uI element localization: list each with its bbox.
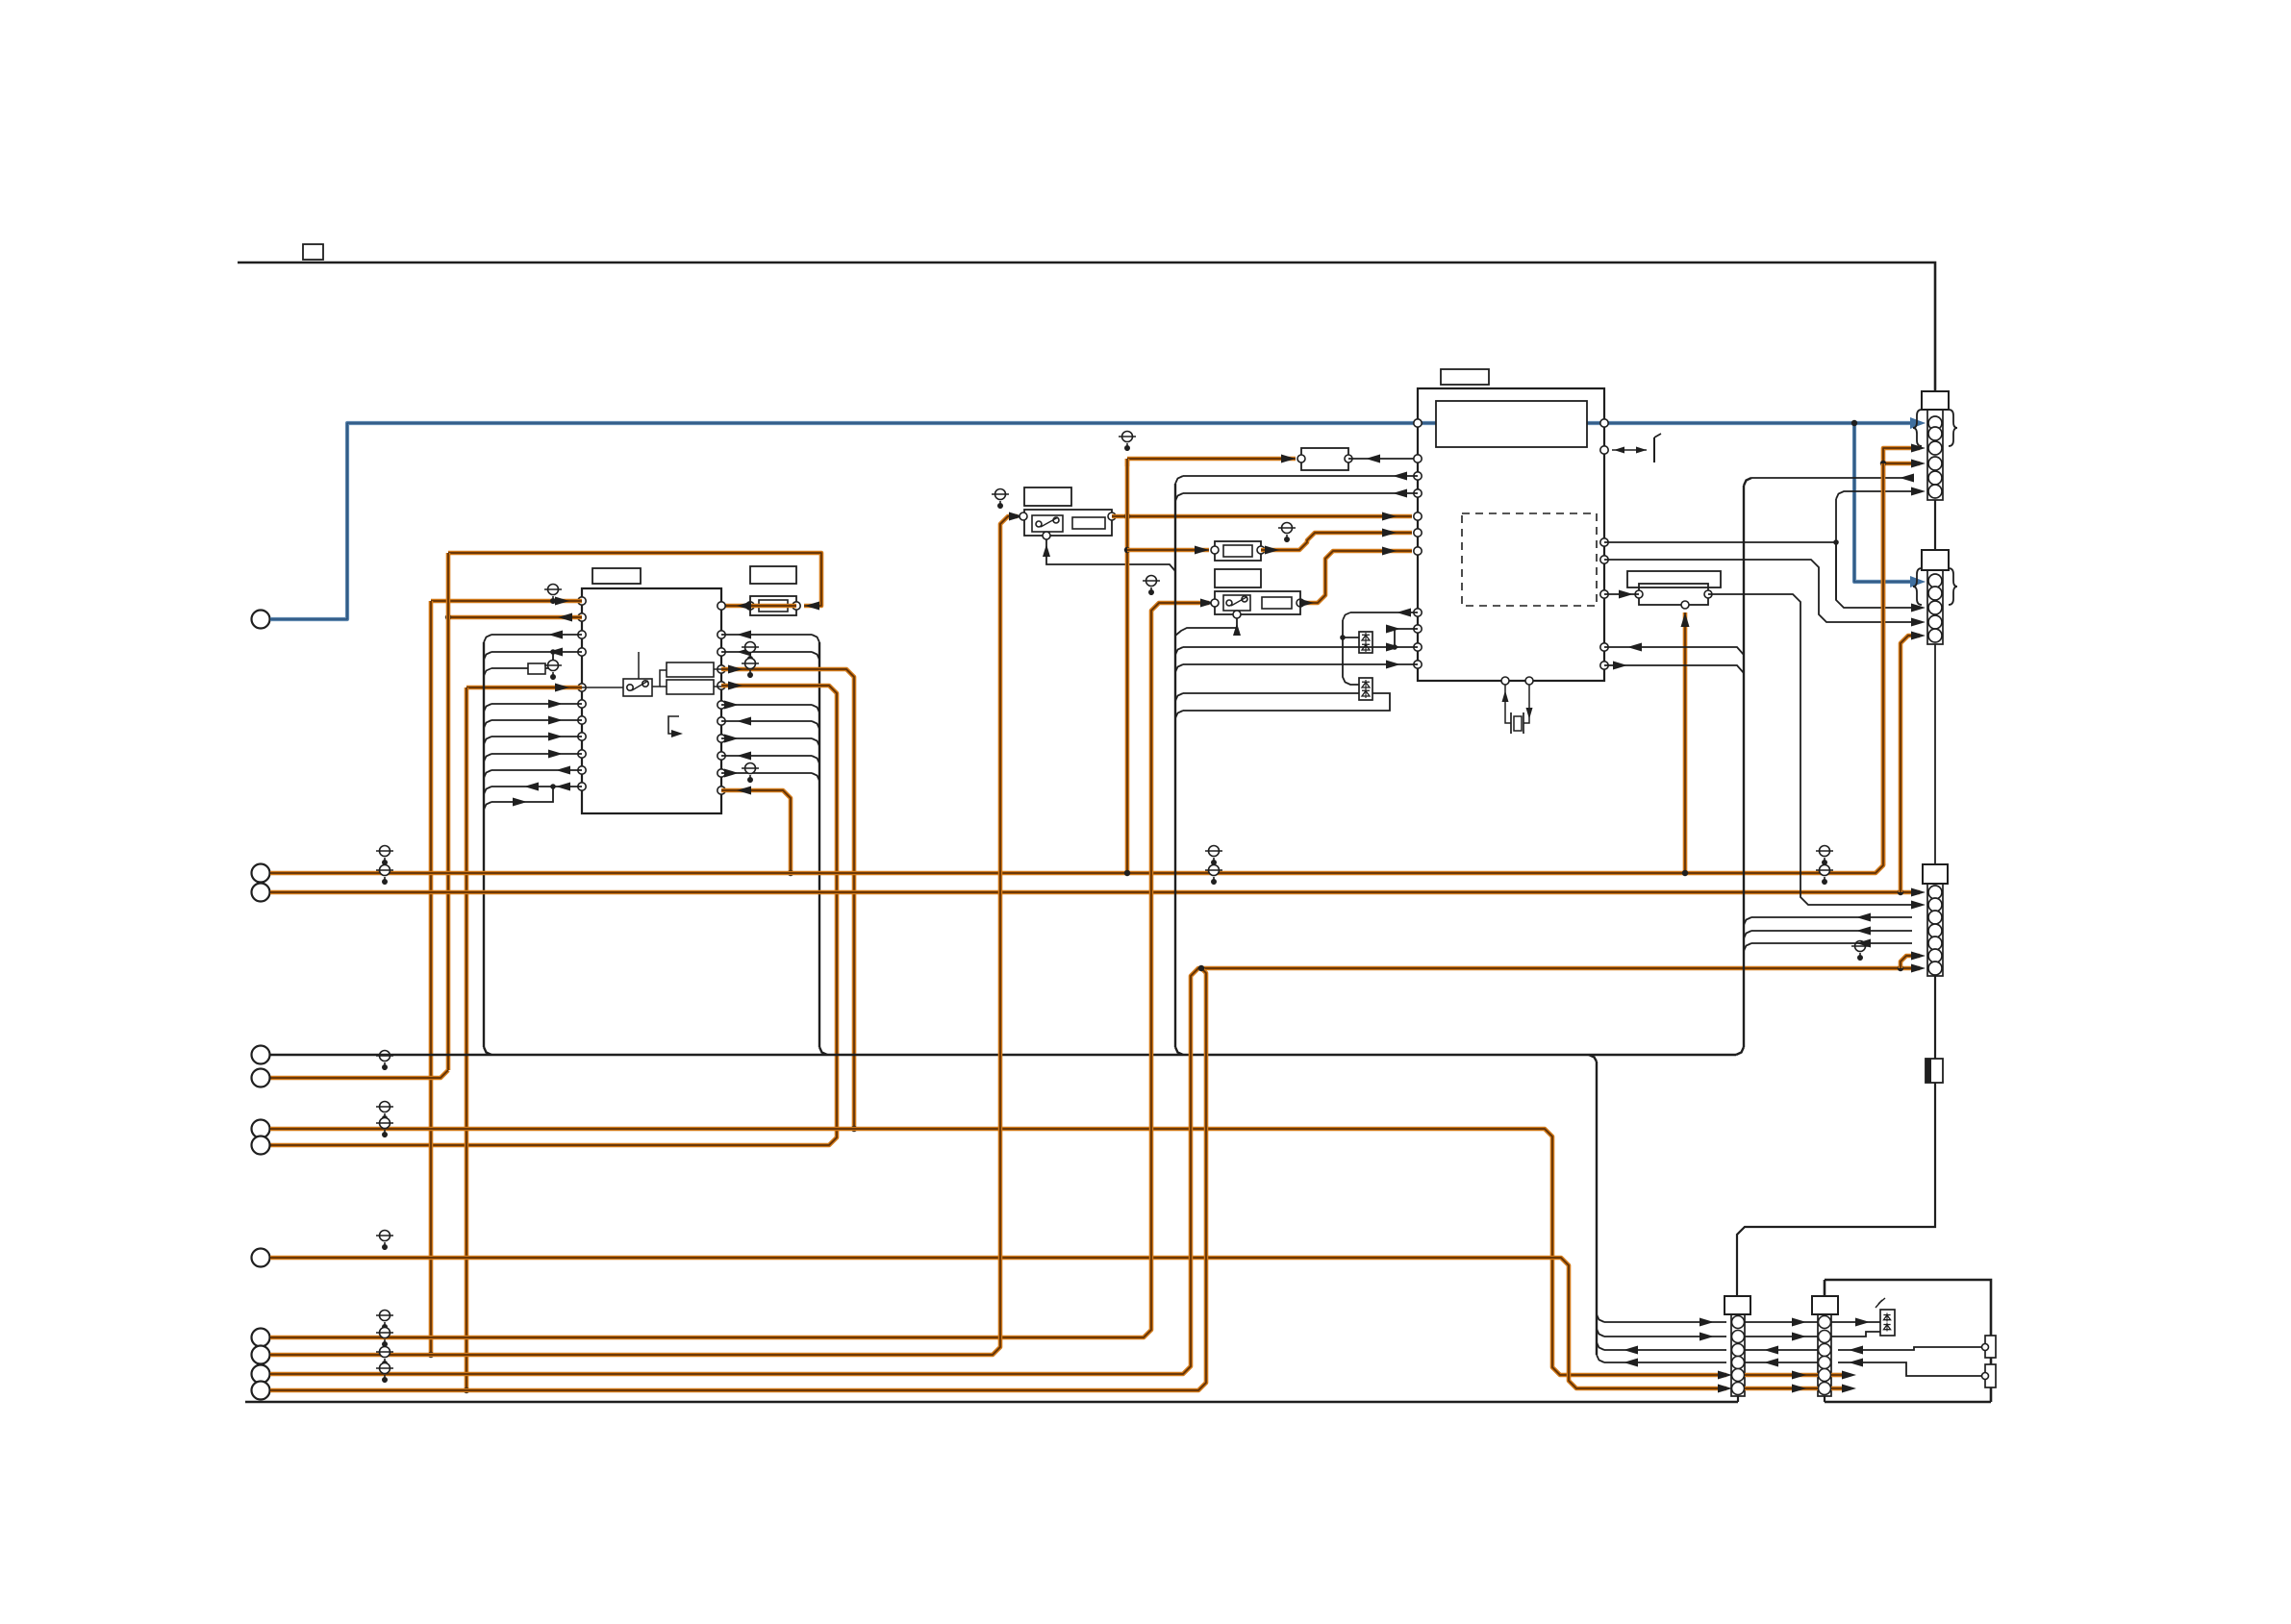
diode pack D2 bbox=[1359, 678, 1372, 700]
riser: orange x448 (terminal T5 to ECU1 pin 625) bbox=[429, 601, 434, 1355]
wire: bus to ECU2 pin 691 bbox=[1183, 663, 1418, 665]
wire: orange supply line y928 to connector J3 pin1 bbox=[270, 890, 1920, 895]
connector J2 pin stack bbox=[1927, 570, 1943, 644]
wire: C3 output jog up to ECU2 pin 554 bbox=[1261, 533, 1412, 550]
relay K2 outline bbox=[1215, 591, 1300, 614]
terminal T1 y1174 bbox=[252, 1120, 270, 1138]
connector J2 housing box bbox=[1922, 550, 1949, 570]
switch S3 inside K2 bbox=[1223, 595, 1250, 611]
wire: J1 pin6 gray feed bbox=[1835, 542, 1837, 600]
terminal: orange line y928 bbox=[252, 884, 270, 902]
wire: ECU2 pin 582 to J2 pin4 bbox=[1604, 560, 1920, 622]
diode pack D3 bbox=[1880, 1310, 1895, 1336]
wire: T7 line y1440 up riser x1246 joining y1007 line bbox=[270, 968, 1206, 1390]
wire: orange riser x1172 branch to C3 bbox=[1127, 548, 1209, 553]
symbol: bidirectional link at ECU2 pin 468 bbox=[1612, 449, 1647, 451]
splice marker on pin-625 wire bbox=[552, 596, 554, 604]
bus: mid harness vertical x1222 bbox=[1174, 484, 1176, 1047]
wire: T6 line y1421 up riser x1238 to conn J3 line bbox=[270, 968, 1920, 1374]
wire: K2 output orange riser to ECU2 pin 573 bbox=[1300, 551, 1412, 603]
backbone: J2 to J3 bbox=[1934, 644, 1936, 864]
wire: orange ECU1 pin 713 over to riser x870 bbox=[270, 686, 837, 1145]
backbone: J1 to J2 bbox=[1934, 500, 1936, 550]
dashed box inside U2 bbox=[1462, 513, 1597, 606]
label box U1 right bbox=[750, 566, 796, 584]
relay K1 outline bbox=[1024, 510, 1112, 536]
resistor R2 inside K1 bbox=[1072, 517, 1105, 529]
terminal T3 y1308 bbox=[252, 1249, 270, 1267]
terminal: black harness line y1097 bbox=[252, 1046, 270, 1064]
wire: orange loop over ECU1 from vertical riser to resistor R1 bbox=[448, 553, 821, 606]
wire: blue through ECU2 to connector J1 pin 1 bbox=[1418, 421, 1604, 425]
wire: J5 row1 to diode pack D3 bbox=[1831, 1321, 1880, 1323]
terminal: orange line y908 bbox=[252, 864, 270, 883]
junction: blue branch bbox=[1851, 420, 1857, 426]
wire: blue branch down to connector J2 pin 1 bbox=[1854, 423, 1920, 582]
wire: T2 line y1191 (joins riser x870) bbox=[384, 1130, 386, 1137]
connector J3 pin stack bbox=[1927, 884, 1943, 976]
resistor R3 inside K2 bbox=[1262, 597, 1292, 609]
wires: ECU2 pins 673/692 merge into bundle x1813 bbox=[1604, 647, 1744, 655]
terminal T2 y1191 bbox=[252, 1137, 270, 1155]
connector J3 housing box bbox=[1923, 864, 1948, 884]
wire: orange ECU1 pin 642 to riser x466 bbox=[448, 615, 582, 620]
connector J5 housing box bbox=[1812, 1296, 1838, 1314]
label box U1 left bbox=[592, 568, 641, 584]
inner box U2 top bbox=[1436, 401, 1587, 447]
backbone: J3 down to corner bbox=[1737, 976, 1935, 1296]
component: ECU1 internal resistor Ra bbox=[667, 662, 714, 677]
wire: resistor R5 to J5 row4 bbox=[1838, 1362, 1982, 1376]
wire: T5 line y1409 up riser x1040 to relay K1 bbox=[270, 516, 1018, 1355]
component C4 (series box right of ECU2) bbox=[1639, 584, 1708, 605]
pins: ECU1 right edge bbox=[718, 602, 725, 610]
terminal T7 y1446 bbox=[252, 1382, 270, 1400]
connector J4 housing box bbox=[1725, 1296, 1750, 1314]
component: ECU1 internal resistor Rb bbox=[667, 680, 714, 694]
wire: orange supply line y908 to riser x1958 bbox=[270, 456, 1883, 873]
wire: ECU2 pin 564 to connector riser x1909 bbox=[1604, 541, 1836, 543]
resistor R4 on module edge bbox=[1985, 1336, 1996, 1358]
wires: J3 pins 954/968/981 to bundle x1813 bbox=[1751, 916, 1912, 918]
label box K1 bbox=[1024, 487, 1071, 506]
component C2 box bbox=[1301, 448, 1348, 470]
wire: top horizontal rule to connector backbone bbox=[238, 262, 1935, 391]
bundle: vertical x1813 bbox=[1743, 486, 1745, 1047]
terminal T5 y1409 bbox=[252, 1346, 270, 1364]
component: small inline box on pin-678 stub bbox=[528, 663, 545, 674]
bus: ECU1 right harness vertical x852 bbox=[818, 642, 820, 1047]
label box C4 bbox=[1627, 571, 1721, 587]
pins: ECU2 left edge bbox=[1414, 419, 1422, 427]
wire: harness corner up to bundle x1813 bbox=[1736, 1047, 1744, 1055]
terminal: orange line y1121 bbox=[252, 1069, 270, 1087]
component: ECU1 internal switch S1 bbox=[623, 679, 652, 696]
junction riser x888 on terminal line y1174 bbox=[851, 1126, 857, 1132]
wire: ECU1 pin 660 to left bus bbox=[491, 634, 582, 636]
junction + branch on pin-818 wire bbox=[550, 784, 556, 789]
wires: J4 to J5 rows bbox=[1745, 1321, 1818, 1323]
wire: T3 line y1308 to drop x1631 bbox=[270, 1258, 1726, 1388]
component C3 resistor box bbox=[1215, 541, 1261, 561]
resistor R1 (top right of ECU1) bbox=[750, 596, 796, 615]
box: bottom-right module outline bbox=[1825, 1280, 1991, 1402]
wires: ECU1 right pins to right harness x852 bbox=[721, 634, 812, 636]
junction: y928 branch up to J2 pin5 bbox=[1898, 889, 1903, 895]
wire: stub up to J3 pin 994 bbox=[1901, 956, 1920, 968]
wire: orange feed to ECU1 pin 625 from riser x448 bbox=[431, 599, 582, 604]
wire: main bottom rule bbox=[245, 1401, 1738, 1404]
wire: C4 output drop to J3 pin2 bbox=[1708, 594, 1920, 905]
wire: T4 line y1391 up riser x1197 to relay K2 bbox=[270, 603, 1209, 1337]
wire: resistor R4 to J5 row3 bbox=[1838, 1347, 1982, 1350]
riser: orange x1172 bbox=[1125, 459, 1130, 873]
wire: orange feed up into C4 bottom pin bbox=[1683, 612, 1688, 873]
connector J1 pin stack bbox=[1927, 410, 1943, 500]
riser: orange x485 (terminal T7 to ECU1 pin 715) bbox=[465, 687, 469, 1390]
wire: diode D2 loop to bus bbox=[1183, 692, 1359, 694]
terminal: blue input terminal bbox=[252, 611, 270, 629]
junction: y1007 line stub to J3 pin6 bbox=[1898, 965, 1903, 971]
wire: orange ECU1 pin 696 over to riser x888 bbox=[721, 669, 854, 1129]
wire: T1 line y1174 to drop x1614 bbox=[270, 1129, 1726, 1375]
wire: blue signal from terminal to main ECU2 block bbox=[270, 423, 1418, 619]
pins K2 bbox=[1211, 599, 1219, 607]
riser orange x1958 bbox=[1881, 463, 1886, 865]
wires: ECU2 pins 495/513 to bus x1222 bbox=[1183, 475, 1418, 477]
wire: orange feed to ECU1 pin 715 from riser x485 bbox=[466, 686, 582, 690]
wire: orange from riser x1172 to component C2 bbox=[1125, 459, 1130, 466]
connector J1 housing box bbox=[1922, 391, 1949, 410]
riser x1909 linking J1 pin6 / J2 pin3 bbox=[1836, 499, 1920, 608]
wire: C2 to ECU2 pin 477 bbox=[1348, 458, 1418, 460]
switch S2 inside K1 bbox=[1032, 515, 1063, 532]
wire: K1 coil return to bus x1222 bbox=[1046, 539, 1175, 571]
wires: orange stubs out of J5 bbox=[1831, 1373, 1845, 1378]
label box K2 bbox=[1215, 569, 1261, 587]
wire: ECU1 pin 678 to left bus with inline box bbox=[491, 651, 582, 653]
diode pack D1 bbox=[1359, 632, 1372, 653]
terminal T4 y1391 bbox=[252, 1329, 270, 1347]
wire: orange ECU1 pin 822 fed from riser x822 bbox=[721, 790, 791, 873]
fuse F1 on backbone bbox=[1926, 1059, 1943, 1083]
wire: diode D1 row to ECU2 pins 654/673 bbox=[1183, 646, 1418, 648]
node: top bus label box bbox=[303, 244, 323, 260]
wire: ECU2 pin 637 to diode packs bbox=[1350, 612, 1418, 613]
junction: riser x1172 on K1 output bbox=[1124, 513, 1130, 519]
bundle: drop x1660 from harness to connector J4 bbox=[1596, 1062, 1598, 1355]
wires: ECU1 left bus fan rows 732-818 bbox=[491, 703, 582, 705]
brace J2 bbox=[1913, 568, 1922, 605]
wire: J1 pin3/pin4 orange feeds bbox=[1883, 448, 1920, 456]
wires: bundle fan to J4 rows bbox=[1604, 1321, 1726, 1323]
wire: K2 coil return to bus x1222 bbox=[1175, 618, 1237, 636]
resistor R5 on module edge bbox=[1985, 1364, 1996, 1387]
symbol: ECU1 internal jump arrow bbox=[668, 716, 679, 734]
block U2: main ECU outline bbox=[1418, 388, 1604, 681]
crystal X1 under ECU2 bbox=[1501, 677, 1509, 685]
riser: orange x466 (terminal to ECU1 pin 642 and top loop) bbox=[446, 553, 451, 1070]
bus: ECU1 left harness vertical x503 bbox=[483, 642, 485, 1047]
junction riser x822 on orange line y908 bbox=[788, 870, 793, 876]
label box U2 bbox=[1441, 369, 1489, 385]
block U1: left ECU outline bbox=[582, 588, 721, 813]
wire: J1 pin5 to bundle bbox=[1751, 477, 1912, 479]
wire: J5 row2 jog to D3 bbox=[1831, 1332, 1880, 1337]
wire: black harness line y1097 bbox=[270, 1054, 1736, 1056]
connector J4 pin stack bbox=[1731, 1314, 1745, 1396]
terminal T6 y1429 bbox=[252, 1365, 270, 1384]
wire: K1 output orange to ECU2 pin 537 bbox=[1112, 514, 1412, 519]
pins: ECU1 left edge bbox=[578, 597, 586, 605]
wire: R1 output to ECU1 right pin bbox=[750, 604, 796, 609]
pins K1 bbox=[1020, 512, 1027, 520]
wire: ECU2 pin 618 to C4 bbox=[1604, 593, 1639, 595]
brace J1 bbox=[1913, 410, 1922, 446]
junction riser x466 / pin-642 wire bbox=[445, 614, 451, 620]
wire: orange branch to J2 pin5 bbox=[1901, 636, 1920, 892]
connector J5 pin stack bbox=[1818, 1314, 1831, 1396]
pins: ECU2 right edge bbox=[1600, 419, 1608, 427]
